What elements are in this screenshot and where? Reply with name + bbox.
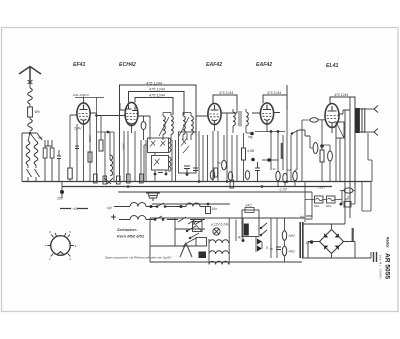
tube ECH42 cathode <box>128 123 135 126</box>
node tb <box>150 205 153 208</box>
trimmer capacitor CT3 <box>154 159 160 166</box>
svg-text:EAF42: EAF42 <box>206 62 222 68</box>
wire <box>28 133 36 168</box>
tube EL41 pin wires <box>318 114 343 133</box>
scale lamp box 2 <box>327 196 336 203</box>
switch S6 <box>155 216 204 224</box>
tube ECH42 anodes <box>126 105 138 111</box>
wire bridge sides <box>308 242 355 259</box>
svg-text:ECH42: ECH42 <box>119 62 136 68</box>
node rect10 <box>310 240 314 244</box>
wire bus 2 <box>62 186 332 188</box>
wire EF41 column drops <box>70 113 90 182</box>
node det1 <box>270 130 273 133</box>
resistor R3 <box>99 140 103 151</box>
wire T1 connections <box>163 113 191 141</box>
capacitor C18 Hy <box>306 216 313 219</box>
wire tuning drops <box>144 140 176 182</box>
resistor R15 <box>214 168 218 177</box>
component Ne <box>344 202 351 208</box>
capacitor C1 <box>43 148 47 158</box>
wire bus 3 <box>118 191 312 193</box>
svg-text:EK2: EK2 <box>246 204 252 208</box>
capacitor C3 <box>57 150 61 182</box>
wire cathode column <box>321 120 323 150</box>
node el41 grid <box>320 144 324 148</box>
resistor R18 oval <box>282 246 286 256</box>
node A1 <box>29 132 32 135</box>
resistor R1 <box>68 168 72 179</box>
wire osc box drops <box>187 131 208 182</box>
box voltage sel label <box>196 238 207 247</box>
coil L9 hum <box>130 216 146 220</box>
wire <box>29 117 31 119</box>
svg-text:1M: 1M <box>287 168 292 172</box>
coil L8 hum <box>130 203 146 207</box>
capacitor C17 pair <box>276 247 281 250</box>
transformer TR1 winding row 3 <box>209 261 229 264</box>
svg-text:475 1244: 475 1244 <box>149 88 165 92</box>
plug P1 oval <box>344 188 353 193</box>
wire <box>45 140 52 182</box>
node det2 <box>277 130 280 133</box>
wire bracket EAF42b <box>263 85 287 110</box>
svg-text:475 1244: 475 1244 <box>146 82 162 86</box>
wire el41 drops <box>336 138 340 182</box>
resistor R16 <box>230 180 234 188</box>
transformer TR1 winding row 2 <box>209 251 229 254</box>
tube EAF42b cathode <box>264 119 270 124</box>
diode D4 <box>335 246 339 250</box>
svg-text:(da Nr. 1090): (da Nr. 1090) <box>379 255 383 279</box>
svg-text:~4V: ~4V <box>72 207 79 211</box>
tuning box 1 <box>148 138 169 153</box>
electrolytic bar dark <box>300 222 303 258</box>
coil L8b hum <box>186 203 200 206</box>
tube EAF42b grids <box>262 114 272 117</box>
antenna lead arrow <box>28 80 33 88</box>
svg-text:Hy: Hy <box>300 215 304 219</box>
switch S3 <box>104 178 113 184</box>
wire oscillator columns <box>97 113 147 182</box>
svg-text:a 12V 6 24V: a 12V 6 24V <box>211 223 230 227</box>
svg-text:2,4V: 2,4V <box>73 127 82 131</box>
wire top bracket 3 <box>135 98 173 116</box>
tube EAF42a cathode <box>212 120 218 125</box>
node bus joins <box>198 180 201 183</box>
wire volume <box>310 136 313 148</box>
resistor R12 pad <box>117 176 121 184</box>
svg-text:0: 0 <box>266 246 268 250</box>
wire power mid columns <box>271 218 277 258</box>
resistor R6 oval <box>276 171 280 181</box>
svg-text:EL41: EL41 <box>326 63 339 69</box>
wire winding links <box>209 218 229 265</box>
capacitor C15 <box>255 162 260 182</box>
svg-text:10: 10 <box>306 241 310 245</box>
svg-text:475 1244: 475 1244 <box>334 93 348 97</box>
coil L3 input <box>26 141 30 165</box>
svg-text:250: 250 <box>56 197 63 201</box>
resistor R11 pad <box>103 176 107 184</box>
IF transformer T1 trimmer arrow 2 <box>179 117 189 136</box>
node s4 <box>291 132 294 135</box>
wire bracket EL41 <box>330 97 355 188</box>
switch lever mains <box>180 243 192 257</box>
coil L2 antenna <box>28 119 33 131</box>
svg-text:Wk: Wk <box>38 136 43 140</box>
resistor W6 <box>29 104 31 107</box>
svg-text:5n: 5n <box>217 161 221 165</box>
label vertical trafo <box>352 228 354 241</box>
svg-text:Zerhacker-: Zerhacker- <box>116 227 138 232</box>
node mn <box>251 158 255 162</box>
wire plate risers <box>343 97 350 224</box>
tube EL41 grids <box>327 116 339 119</box>
diode D3 <box>324 246 328 250</box>
selector arrow 1 <box>257 239 262 245</box>
tube EF41 grids <box>79 114 89 117</box>
wire speaker top <box>360 108 374 110</box>
svg-text:100–150mV: 100–150mV <box>73 93 90 97</box>
svg-text:Kern M5Z 6/51: Kern M5Z 6/51 <box>117 234 145 239</box>
switch S1 <box>30 133 42 140</box>
output transformer core <box>355 108 360 133</box>
ground plug 18 <box>146 193 160 201</box>
svg-text:AR 5055: AR 5055 <box>384 253 391 279</box>
tube EAF42a pin wires <box>196 103 237 131</box>
pickup plus mark <box>111 215 116 220</box>
svg-text:Ne: Ne <box>345 198 349 202</box>
capacitor block dark EK <box>244 224 249 236</box>
svg-text:4,3M: 4,3M <box>247 149 254 153</box>
tube EF41 envelope <box>77 103 90 124</box>
wire bus 1 <box>22 181 371 183</box>
coil L4 input <box>34 141 38 165</box>
svg-text:13nF: 13nF <box>122 143 126 150</box>
tone capacitor box <box>336 122 344 138</box>
svg-text:W6: W6 <box>35 110 40 114</box>
wire <box>278 170 297 187</box>
selector arrow 2 <box>257 246 262 252</box>
wire tonab box <box>150 218 302 262</box>
wire bridge top <box>302 224 345 230</box>
resistor R4 <box>242 148 246 160</box>
tuning box 2 <box>152 156 169 171</box>
wire pickup line 1 <box>114 206 205 208</box>
svg-text:2017: 2017 <box>317 186 326 190</box>
wire left drop <box>22 133 30 182</box>
wire lamp rail <box>305 199 342 201</box>
trimmer capacitor CT1 <box>150 141 156 147</box>
wire bracket EAF42a <box>213 95 237 103</box>
fuse block dark <box>199 252 207 259</box>
resistor R17 oval <box>282 231 286 241</box>
tube EAF42b pin wires <box>252 113 280 132</box>
resistor R13 pad <box>127 174 131 183</box>
node grid junction <box>95 114 98 117</box>
resistor R2 <box>88 152 92 162</box>
IF transformer T1 coil a <box>163 116 165 134</box>
label 4V line <box>60 208 88 210</box>
tube EAF42a envelope <box>208 103 221 124</box>
tube EAF42b envelope <box>260 103 273 124</box>
svg-text:475 1244: 475 1244 <box>219 91 233 95</box>
coil L7 loops <box>169 157 171 171</box>
svg-text:–1,5V: –1,5V <box>277 188 288 192</box>
wire sec drop <box>368 133 372 182</box>
scale lamp box 1 <box>315 196 324 203</box>
antenna <box>19 67 41 85</box>
switch S8 <box>261 223 267 235</box>
wire bottom rail right <box>302 252 371 258</box>
node mg <box>250 132 254 136</box>
svg-text:s(V: s(V <box>107 206 113 210</box>
IF transformer T1 coil b <box>171 116 173 134</box>
terminal caps right <box>374 252 377 262</box>
IF transformer T1 trimmer arrow <box>159 117 169 136</box>
capacitor C16 <box>206 207 211 214</box>
IF transformer T2 coil b <box>246 112 248 126</box>
svg-text:EAF42: EAF42 <box>256 62 272 68</box>
box mains input <box>193 222 203 232</box>
node osc box <box>186 173 189 176</box>
svg-text:A2: A2 <box>237 236 242 240</box>
svg-text:Radior: Radior <box>386 237 390 248</box>
capacitor C12 oval <box>328 151 333 161</box>
IF transformer T2 core <box>239 111 241 127</box>
IF transformer T1 coil c <box>183 116 185 134</box>
node junction 250 <box>61 182 63 193</box>
diode D1 <box>324 233 328 237</box>
svg-text:SKL: SKL <box>314 204 320 208</box>
node osc <box>107 131 110 134</box>
capacitor C6 <box>184 166 190 173</box>
node tuning <box>154 173 157 176</box>
wire speaker bottom <box>360 131 374 133</box>
tube EF41 cathode <box>81 119 87 124</box>
wire detector horizontal <box>255 131 285 133</box>
wire selector <box>236 218 262 252</box>
capacitor C5 oval <box>141 122 146 130</box>
wire EAF42a columns <box>213 113 244 182</box>
switch S4 detector <box>292 130 310 136</box>
lamp LP1 <box>213 228 220 235</box>
svg-text:HH2: HH2 <box>289 234 296 238</box>
resistor R8 oval <box>293 171 297 181</box>
tube EL41 anode <box>328 106 337 111</box>
resistor R14 pad <box>140 174 144 183</box>
tube EAF42a grids <box>210 114 220 117</box>
svg-text:EF41: EF41 <box>73 62 86 68</box>
wire bus drop right <box>362 182 371 212</box>
capacitor C9 oval <box>228 172 232 181</box>
coil L1 antenna <box>28 88 33 104</box>
svg-text:4n: 4n <box>273 167 277 171</box>
capacitor C8 oval <box>210 171 214 180</box>
svg-text:10n: 10n <box>212 207 218 211</box>
tube ECH42 envelope <box>125 102 138 125</box>
capacitor C7 oval <box>222 160 227 170</box>
transformer TR1 winding row 1 <box>209 240 229 243</box>
capacitor C11 coupling oval <box>310 118 318 122</box>
wire pickup line 2 <box>119 219 205 221</box>
output transformer secondary <box>362 108 365 133</box>
tube EL41 envelope <box>325 104 339 128</box>
svg-text:SKL: SKL <box>326 204 332 208</box>
svg-text:475 1244: 475 1244 <box>267 91 281 95</box>
svg-text:4x: 4x <box>270 247 274 251</box>
wire <box>262 159 278 161</box>
wire mains rail <box>152 203 230 205</box>
node A2 <box>242 239 245 242</box>
tube EF41 anode <box>80 105 88 110</box>
svg-text:HH2: HH2 <box>289 250 296 254</box>
svg-text:475 1244: 475 1244 <box>149 94 165 98</box>
wire power top rail <box>150 217 305 219</box>
wire top bracket 2 <box>129 92 185 116</box>
node det3 <box>267 158 271 162</box>
box EK <box>242 210 259 237</box>
switch S7 levers <box>187 226 199 243</box>
wire T2 connections <box>228 109 252 133</box>
svg-text:mg: mg <box>248 135 253 139</box>
label vertical AF <box>281 143 284 159</box>
tube EAF42b anode <box>263 105 271 110</box>
wire top bracket 1 <box>120 85 197 182</box>
oscillator box 2 <box>179 132 197 173</box>
capacitor C2 <box>50 148 54 158</box>
capacitor C14 <box>193 168 198 171</box>
IF transformer T2 coil a <box>233 112 235 126</box>
coil L6 loops <box>169 138 171 152</box>
resistor R5 oval <box>313 143 318 154</box>
coil L5 oscillator loops <box>110 155 113 176</box>
diode D2 <box>335 233 339 237</box>
tube ECH42 pin wires <box>97 103 151 133</box>
capacitor C13 <box>158 170 163 173</box>
switch S2 contacts <box>27 169 40 182</box>
tube ECH42 grids <box>126 114 138 120</box>
svg-text:13nF: 13nF <box>88 135 92 142</box>
IF transformer T1 coil d <box>191 116 193 134</box>
wire detector columns <box>271 110 297 182</box>
wire right column joins <box>305 182 355 223</box>
svg-text:Spannungswerte mit Röhrenvoltm: Spannungswerte mit Röhrenvoltmeter bei U… <box>105 256 172 260</box>
tube EL41 cathode <box>329 122 336 128</box>
resistor R9 <box>320 150 324 162</box>
trimmer capacitor CT4 <box>181 138 189 153</box>
resistor R10 pad <box>94 174 98 183</box>
wire osc horizontal <box>97 131 115 133</box>
wire EF41 top label line <box>75 98 104 114</box>
rectifier bridge diamond <box>320 230 344 254</box>
speaker terminal top <box>374 106 378 113</box>
resistor R7 oval <box>283 173 287 183</box>
speaker terminal bottom <box>374 129 378 136</box>
capacitor C10 oval <box>245 171 249 180</box>
tube EAF42a anode <box>211 105 219 110</box>
tube socket view <box>51 236 71 256</box>
trimmer capacitor CT2 <box>160 141 166 147</box>
switch S5 <box>157 203 164 207</box>
capacitor C4 <box>75 146 79 149</box>
tube EF41 pin wires <box>70 97 97 132</box>
